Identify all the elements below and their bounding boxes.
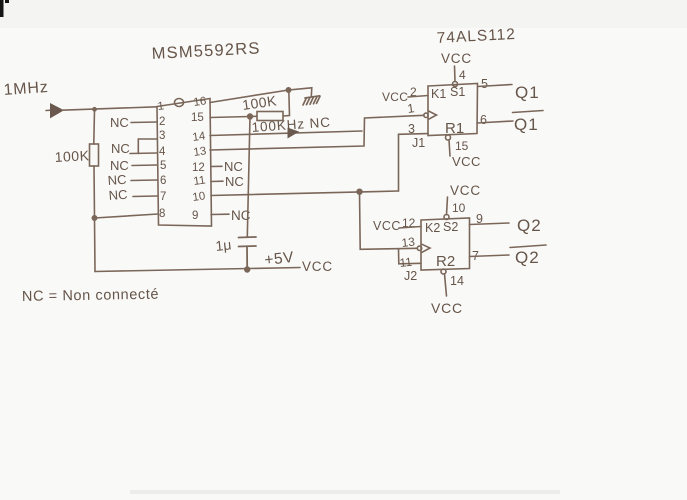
capacitor C1 (239, 237, 257, 270)
pin14 lead VCC (431, 274, 464, 316)
wire pin10 long (211, 191, 399, 196)
svg-text:10: 10 (192, 190, 206, 204)
svg-text:1: 1 (157, 100, 165, 113)
input arrow (46, 104, 63, 118)
wire vertical left down to resistor (93, 110, 96, 145)
pin15 lead VCC (449, 139, 481, 169)
svg-text:NC: NC (107, 172, 127, 188)
svg-text:9: 9 (192, 210, 198, 222)
svg-text:1MHz: 1MHz (3, 79, 49, 99)
svg-text:12: 12 (192, 162, 205, 174)
pin6 Q1bar (477, 111, 543, 135)
NC pin5 (110, 158, 157, 173)
wire pin15-node down to capacitor (247, 117, 250, 238)
bubble R2 (441, 269, 446, 274)
svg-text:VCC: VCC (373, 219, 401, 233)
svg-text:16: 16 (193, 95, 207, 109)
bubble R1 (446, 135, 451, 140)
pin2 K1 VCC (382, 85, 428, 104)
svg-text:J1: J1 (412, 136, 425, 150)
svg-text:R2: R2 (436, 253, 455, 270)
pin5 Q1 (478, 77, 540, 102)
node input/R divider (93, 108, 96, 111)
pin10 lead (447, 197, 448, 215)
node cap to rail (245, 267, 250, 272)
svg-text:1μ: 1μ (215, 236, 232, 254)
node pin10 branch (357, 189, 362, 194)
svg-text:6: 6 (480, 113, 487, 127)
svg-text:NC: NC (224, 159, 243, 174)
svg-text:Q1: Q1 (514, 115, 539, 134)
pin4 lead (454, 66, 457, 82)
svg-text:NC = Non connecté: NC = Non connecté (22, 287, 159, 305)
wire node to pin 8 (95, 214, 159, 218)
scan mark top-left (0, 0, 9, 17)
svg-text:4: 4 (159, 146, 166, 158)
resistor R 100K vertical (90, 144, 99, 166)
wire up to J1 (399, 134, 429, 191)
NC pin6 (107, 172, 157, 188)
svg-text:3: 3 (408, 122, 415, 136)
bubble S2 (444, 215, 449, 220)
IC U1 MSM5592RS body (157, 99, 212, 227)
wire node to ground (289, 88, 312, 97)
svg-text:K2: K2 (425, 221, 440, 235)
svg-text:VCC: VCC (431, 300, 463, 316)
svg-text:NC: NC (111, 141, 130, 156)
svg-text:6: 6 (160, 175, 166, 187)
pin numbers U1 left (157, 100, 166, 220)
svg-text:VCC: VCC (450, 183, 481, 198)
NC pin11 (211, 174, 244, 189)
svg-text:Q1: Q1 (515, 83, 540, 102)
+5V rail (95, 268, 300, 272)
NC pin9 (211, 208, 251, 223)
svg-text:13: 13 (193, 145, 207, 159)
pin9 Q2 (470, 212, 542, 235)
flip-flop U2A box (428, 84, 478, 136)
svg-text:11: 11 (399, 255, 413, 270)
svg-text:14: 14 (192, 130, 207, 144)
svg-text:VCC: VCC (302, 259, 333, 274)
svg-text:K1: K1 (431, 87, 446, 101)
svg-text:VCC: VCC (441, 51, 472, 66)
svg-text:5: 5 (481, 77, 488, 91)
svg-text:13: 13 (401, 235, 416, 250)
svg-text:NC: NC (110, 115, 129, 130)
wire pin14 100KHz NC (210, 131, 362, 136)
svg-text:S2: S2 (443, 220, 458, 234)
svg-text:15: 15 (191, 112, 204, 124)
flip-flop U2B box (421, 218, 470, 270)
svg-text:VCC: VCC (452, 154, 481, 169)
svg-text:Q2: Q2 (517, 216, 542, 235)
svg-text:7: 7 (160, 191, 166, 203)
ground symbol (303, 96, 320, 105)
wire input to pin1 (62, 107, 157, 110)
wire node down to FF2 clock (360, 192, 418, 250)
pin11 J2 (399, 255, 417, 283)
svg-text:S1: S1 (450, 85, 465, 99)
svg-text:NC: NC (110, 158, 129, 173)
wire node down to +5V rail (94, 218, 97, 272)
pin3 J1 (408, 122, 425, 150)
wire pin16 up to ground node (210, 90, 289, 103)
svg-text:J2: J2 (404, 269, 417, 283)
arrow on 100KHz wire (288, 128, 298, 137)
svg-text:15: 15 (455, 139, 469, 153)
svg-text:2: 2 (159, 116, 165, 128)
svg-text:5: 5 (160, 160, 166, 172)
NC pin12 (211, 159, 243, 174)
wire pin15 to node (210, 117, 250, 118)
svg-text:+5V: +5V (264, 249, 295, 269)
clock FF2 pin13 (401, 235, 430, 253)
wire resistor to node pin8 (93, 166, 96, 218)
svg-text:11: 11 (193, 174, 207, 188)
svg-text:NC: NC (225, 174, 244, 189)
svg-text:100K: 100K (54, 147, 90, 165)
pin numbers U1 right (191, 95, 207, 222)
pin12 K2 VCC (373, 216, 421, 233)
pin7 Q2bar (470, 245, 547, 267)
clock FF1 pin1 (406, 101, 436, 119)
svg-text:NC: NC (108, 187, 128, 203)
svg-text:VCC: VCC (382, 90, 408, 104)
svg-text:4: 4 (459, 68, 466, 82)
svg-text:Q2: Q2 (515, 248, 540, 267)
resistor 100K horizontal (250, 90, 290, 121)
node pin8 junction (92, 216, 96, 220)
node pin16/resistor/ground (286, 88, 290, 92)
svg-text:3: 3 (159, 130, 165, 142)
NC pin7 (108, 187, 157, 203)
node pin15 (248, 114, 253, 119)
NC pin2 (110, 115, 157, 130)
svg-text:10: 10 (452, 201, 466, 215)
svg-text:8: 8 (159, 208, 165, 220)
wire pin13 to FF1 clock (210, 115, 424, 150)
NC bracket pins 3-4 (111, 139, 157, 156)
svg-text:14: 14 (450, 274, 464, 288)
bubble S1 (453, 82, 458, 87)
wire jog down to J2 (399, 249, 422, 264)
